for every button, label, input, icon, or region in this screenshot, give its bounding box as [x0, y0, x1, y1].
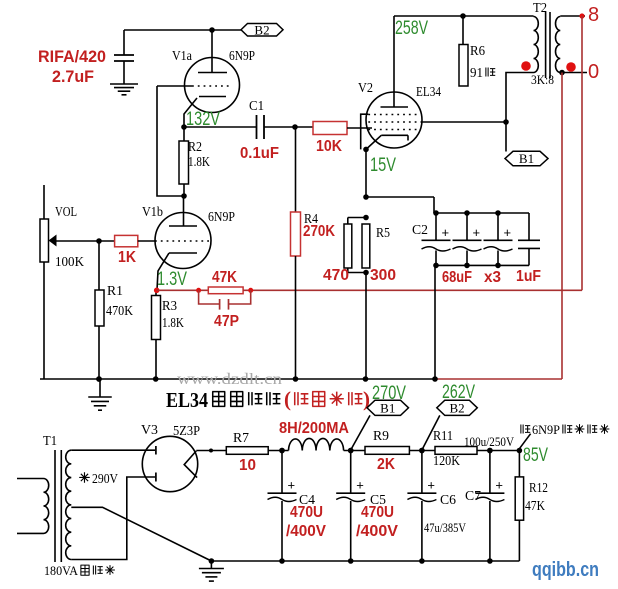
svg-text:470U: 470U	[361, 504, 394, 521]
svg-text:132V: 132V	[186, 109, 220, 130]
svg-text:6N9P: 6N9P	[208, 210, 235, 225]
svg-text:C2: C2	[412, 223, 428, 238]
svg-text:B2: B2	[449, 400, 464, 415]
svg-text:1.3V: 1.3V	[157, 269, 187, 290]
svg-text:VOL: VOL	[55, 205, 77, 220]
svg-text:EL34: EL34	[166, 388, 208, 412]
svg-text:258V: 258V	[395, 18, 428, 39]
svg-text:47u/385V: 47u/385V	[424, 520, 466, 535]
svg-text:10: 10	[239, 457, 256, 474]
svg-text:T2: T2	[533, 1, 547, 16]
svg-text:R7: R7	[233, 431, 249, 446]
svg-text:2.7uF: 2.7uF	[52, 67, 94, 86]
svg-text:0: 0	[588, 61, 599, 83]
svg-text:15V: 15V	[370, 155, 396, 176]
svg-text:3K:8: 3K:8	[531, 72, 554, 87]
svg-text:C1: C1	[249, 99, 264, 114]
svg-text:1uF: 1uF	[516, 268, 541, 285]
svg-text:V3: V3	[141, 423, 158, 438]
svg-text:+: +	[473, 225, 481, 240]
svg-text:EL34: EL34	[416, 85, 441, 100]
svg-text:68uF: 68uF	[442, 269, 472, 286]
svg-text:V1a: V1a	[172, 49, 193, 64]
svg-text:+: +	[356, 478, 364, 493]
svg-text:B2: B2	[254, 22, 269, 37]
svg-text:+: +	[288, 478, 296, 493]
svg-text:B1: B1	[380, 400, 395, 415]
svg-text:R3: R3	[162, 299, 177, 314]
svg-text:R6: R6	[470, 44, 485, 59]
svg-text:x3: x3	[484, 269, 501, 286]
svg-text:8: 8	[588, 4, 599, 26]
svg-text:R12: R12	[529, 481, 548, 496]
svg-text:47P: 47P	[214, 313, 239, 330]
svg-text:1K: 1K	[118, 249, 136, 266]
svg-text:+: +	[442, 225, 450, 240]
svg-text:6N9P: 6N9P	[229, 49, 255, 64]
svg-text:0.1uF: 0.1uF	[240, 145, 279, 162]
svg-text:1.8K: 1.8K	[188, 155, 210, 170]
svg-text:2K: 2K	[377, 456, 395, 473]
svg-text:R1: R1	[107, 284, 123, 299]
svg-text:T1: T1	[43, 434, 57, 449]
svg-text:R9: R9	[373, 429, 389, 444]
svg-text:470U: 470U	[290, 504, 323, 521]
svg-text:V1b: V1b	[142, 205, 163, 220]
svg-text:100K: 100K	[55, 255, 84, 270]
svg-text:10K: 10K	[316, 138, 342, 155]
svg-text:www.dzdlt.cn: www.dzdlt.cn	[177, 371, 282, 388]
svg-text:470: 470	[323, 267, 349, 284]
svg-text:85V: 85V	[523, 445, 548, 466]
svg-text:47K: 47K	[212, 269, 237, 286]
svg-text:+: +	[427, 478, 435, 493]
svg-text:V2: V2	[358, 81, 373, 96]
svg-text:/400V: /400V	[286, 523, 326, 540]
svg-text:+: +	[504, 225, 512, 240]
svg-text:+: +	[495, 478, 503, 493]
svg-text:91: 91	[470, 66, 483, 81]
svg-text:(: (	[284, 387, 291, 411]
svg-text:qqibb.cn: qqibb.cn	[532, 559, 599, 581]
svg-text:100u/250V: 100u/250V	[464, 434, 515, 449]
svg-text:5Z3P: 5Z3P	[173, 424, 200, 439]
svg-text:RIFA/420: RIFA/420	[38, 47, 106, 66]
svg-text:470K: 470K	[106, 304, 133, 319]
svg-text:8H/200MA: 8H/200MA	[279, 420, 349, 437]
svg-text:R2: R2	[188, 140, 202, 155]
svg-text:R11: R11	[433, 429, 453, 444]
svg-text:1.8K: 1.8K	[162, 316, 184, 331]
svg-text:180VA: 180VA	[44, 563, 79, 578]
svg-text:R5: R5	[376, 226, 390, 241]
svg-text:47K: 47K	[525, 499, 545, 514]
svg-text:300: 300	[370, 267, 396, 284]
svg-text:120K: 120K	[433, 454, 460, 469]
svg-text:C7: C7	[465, 489, 481, 504]
svg-text:270K: 270K	[303, 223, 335, 240]
svg-text:6N9P: 6N9P	[532, 422, 560, 437]
svg-text:290V: 290V	[92, 472, 118, 487]
svg-text:B1: B1	[519, 151, 534, 166]
svg-text:C6: C6	[440, 493, 456, 508]
svg-text:/400V: /400V	[356, 523, 398, 540]
